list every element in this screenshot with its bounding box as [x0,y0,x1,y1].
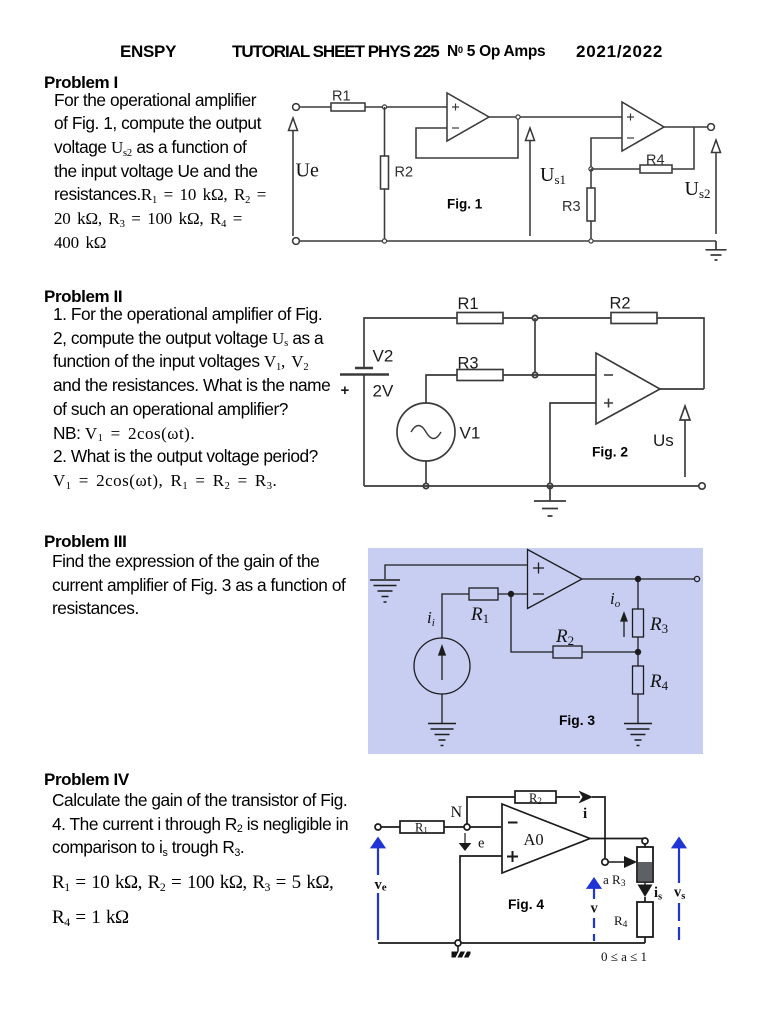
junction node B (U1 output) [516,115,520,119]
resistor R4 [637,902,653,937]
resistor R1 [331,103,365,111]
wire node J down and to R2 [511,594,553,652]
Problem III [44,532,127,552]
svg-text:N: N [451,804,463,821]
bottom right terminal (open circle) [699,483,705,489]
wire ground to op-amp plus input [385,565,527,579]
svg-text:R1: R1 [458,295,479,313]
U3 plus input marker [604,399,613,408]
svg-text:R4: R4 [614,913,628,930]
svg-text:R2: R2 [610,295,631,313]
wire V1 to R3 [426,375,457,403]
U4 plus input marker [533,563,544,574]
wire U3 output [660,388,704,390]
Problem I [44,73,118,93]
wire A0 output [590,838,645,840]
wire R1 to minus input [498,593,527,595]
wire R4 to U2 output [672,127,694,169]
resistor R3 [457,370,503,381]
wire R3 to node K [637,637,639,652]
svg-text:ve: ve [375,877,387,894]
output node (open circle) [642,838,648,844]
wire plus input to bottom rail [460,856,502,943]
figure 4 schematic [358,775,698,970]
wire node C down to R3 [590,169,592,188]
current arrow is (down, filled) [644,882,646,885]
wiper arrow into R3 [608,861,625,863]
junction node E (R3/bottom) [589,239,593,243]
wire node K to R4 [637,652,639,666]
junction node H (V1/bottom) [423,483,428,488]
svg-text:A0: A0 [524,830,544,849]
resistor R3 [587,188,595,221]
svg-text:0 ≤ a ≤ 1: 0 ≤ a ≤ 1 [601,949,647,964]
svg-text:R3: R3 [562,199,581,215]
wire R4 to bottom rail [644,937,646,943]
wire U4 output to terminal [582,578,694,580]
resistor R2 [381,156,389,189]
error arrow e (down) [464,833,466,845]
svg-text:R4: R4 [646,153,665,169]
svg-text:+: + [341,382,350,399]
svg-text:v: v [591,901,599,917]
svg-text:Fig. 4: Fig. 4 [508,897,544,912]
figure 2 schematic [335,288,715,523]
svg-text:Ue: Ue [296,160,319,182]
potentiometer R3 lower part (filled) [638,862,652,882]
wire output to R3 [644,844,646,847]
resistor R4 [640,165,672,173]
resistor R1 [400,821,444,833]
svg-text:a R3: a R3 [603,872,626,889]
wire R3 to bottom rail [590,221,592,241]
resistor R2 [611,313,657,324]
ground G3 [624,724,652,746]
wire plus input to ground [550,403,596,486]
wire input to R1 [381,826,400,828]
bottom terminal (open circle) [293,238,300,245]
wire R1 to op-amp U1 + input [365,106,447,108]
wire R2 to output [657,318,704,389]
resistor R2 [515,791,556,803]
battery V2 [355,367,373,370]
wire node F to node G [534,318,536,375]
U2 minus input marker [627,137,634,139]
junction node J (R1/R2/minus) [508,591,514,597]
A0 plus input marker [507,851,518,862]
header [120,42,176,62]
wire R2 to current arrow i [556,796,580,798]
svg-text:R1: R1 [332,89,351,105]
bottom rail wire [300,240,717,242]
svg-text:Us: Us [653,431,674,450]
wire current source to R1 [442,594,469,638]
wire R2 to bottom rail [384,189,386,241]
svg-text:i: i [583,806,587,822]
current arrow i (filled) [579,791,594,804]
wire U1 output to U2 + input [489,116,622,118]
wire R3 to op-amp minus input [503,374,596,376]
junction node K (R2/R3/R4) [635,649,641,655]
U1 minus input marker [452,127,459,129]
Problem II [44,287,122,307]
resistor R3 [633,609,644,637]
V1 sine wave [411,426,441,439]
svg-text:V1: V1 [460,424,481,443]
ground [534,486,566,516]
wire is arrow to R4 [644,897,646,902]
wire i to wiper [592,797,605,858]
bottom rail wire [378,942,645,944]
svg-text:Fig. 1: Fig. 1 [447,197,483,212]
wiper terminal (open circle) [602,859,608,865]
output terminal (open circle) [708,124,715,131]
wire R1 to node F [503,317,611,319]
background panel [368,548,703,754]
CS1 arrow [439,646,445,680]
svg-text:2V: 2V [373,382,394,401]
wire R2 to node K [582,651,638,653]
op-amp U4 [528,550,583,609]
resistor R4 [633,666,644,694]
svg-text:e: e [478,836,484,852]
input terminal (open circle) [293,104,300,111]
resistor R1 [469,588,498,600]
svg-text:Us1: Us1 [540,164,566,187]
wire input to R1 [300,106,332,108]
U4 minus input marker [533,593,544,595]
wire battery bottom to rail [363,375,365,487]
U2 plus input marker [627,114,634,121]
node N (open circle) [464,824,470,830]
chassis ground [457,946,459,952]
current arrow io [621,613,627,637]
wire V1 to bottom rail [425,461,427,486]
svg-text:is: is [654,885,662,903]
junction node L (output/R3) [635,576,641,582]
wire CS1 to ground G2 [441,694,443,723]
wire R4 to ground G3 [637,694,639,723]
output terminal (open circle) [694,576,699,581]
svg-text:vs: vs [674,885,685,903]
wire R1 to node N [444,826,501,828]
svg-text:Fig. 3: Fig. 3 [559,713,595,728]
op-amp U2 [622,102,664,151]
junction node A (R1/R2) [382,105,386,109]
ground [706,241,727,260]
voltage arrow Us2 [712,140,721,234]
op-amp U3 [596,353,660,424]
figure 1 schematic [283,83,733,268]
wire node C to R4 [591,168,640,170]
figure 3 schematic [365,542,710,757]
wire node L to R3 [637,579,639,609]
ground G2 [428,724,456,746]
wire battery top to R1 [364,318,457,368]
Problem IV [44,770,129,790]
bottom rail wire [364,485,699,487]
junction node I (plus/bottom) [547,483,552,488]
voltage arrow vs (blue) [673,838,686,848]
A0 minus input marker [508,822,518,824]
junction node G (R3/minus) [532,372,537,377]
junction node D (R2/bottom) [382,239,386,243]
voltage arrow Us1 [526,128,535,236]
svg-text:V2: V2 [373,347,394,366]
ground G1 [370,580,400,602]
U1 plus input marker [452,104,459,111]
source V1 [397,403,455,461]
current source CS1 [414,638,470,694]
ground terminal (open circle) [455,940,461,946]
wire U2 minus input to feedback node [591,138,622,169]
svg-text:Us2: Us2 [685,178,711,201]
wire node A down to R2 [384,107,386,156]
potentiometer R3 body [637,847,653,882]
resistor R2 [553,646,582,658]
resistor R1 [457,313,503,324]
svg-text:R2: R2 [395,165,414,181]
voltage arrow ve (blue) [372,838,385,848]
junction node C (R3/R4/minus) [589,167,593,171]
feedback wire U1 output to minus input [416,117,518,158]
voltage arrow Us [680,406,690,477]
op-amp A0 [502,804,590,873]
junction node F (R1/R2) [532,315,537,320]
voltage arrow v (blue) [588,879,601,889]
svg-text:R3: R3 [458,355,479,373]
U3 minus input marker [604,374,613,376]
voltage arrow Ue [289,118,298,236]
wire node N up to R2 [467,797,515,824]
input terminal (open circle) [375,824,381,830]
svg-text:Fig. 2: Fig. 2 [592,445,628,460]
wire U2 output to output terminal [664,126,708,128]
op-amp U1 [447,93,489,141]
